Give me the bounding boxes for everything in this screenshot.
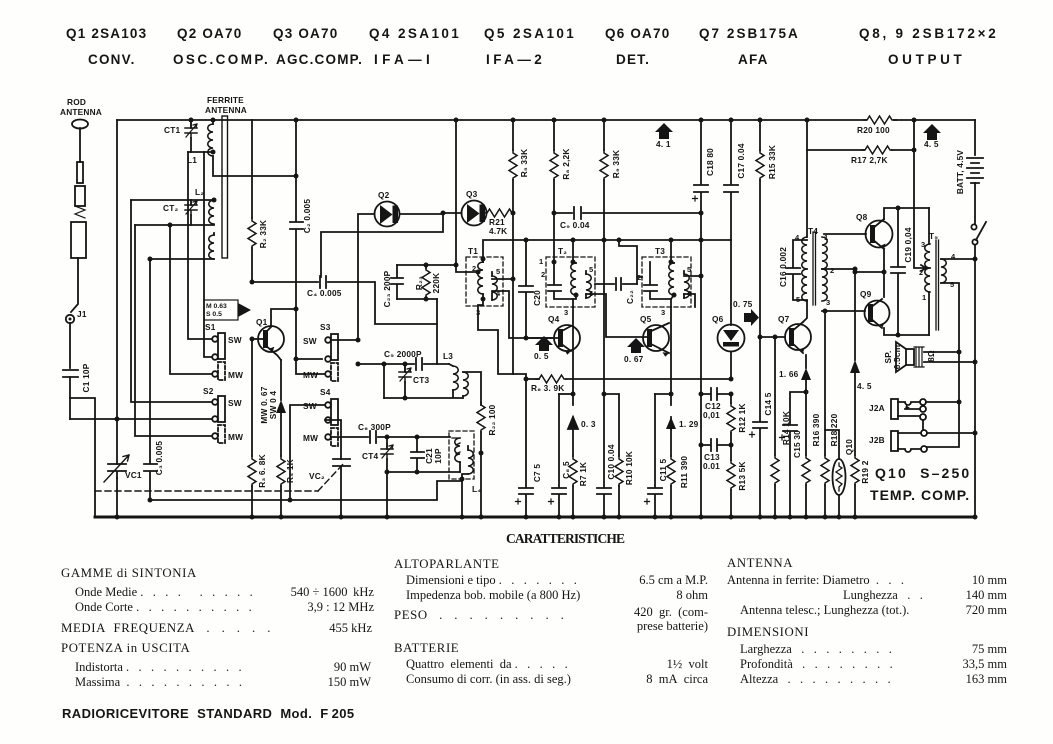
coil L3 [384,351,481,405]
svg-text:Lunghezza . .: Lunghezza . . [843,588,923,602]
capacitor C5 2000P [356,349,450,370]
svg-text:150 mW: 150 mW [328,675,372,689]
svg-text:0. 67: 0. 67 [624,354,644,364]
switch S1 [205,322,243,380]
svg-text:33,5 mm: 33,5 mm [963,657,1008,671]
svg-text:SW: SW [228,335,242,345]
svg-text:Q1: Q1 [256,317,268,327]
svg-text:Q7: Q7 [778,314,790,324]
resistor R12 1K [727,394,747,433]
svg-text:1: 1 [539,257,543,266]
battery BATT 4.5V [955,120,983,224]
capacitor C13 0.01 [699,394,734,520]
spec text right column [727,556,1007,686]
transistor Q8 [824,212,893,249]
svg-text:3: 3 [661,308,665,317]
svg-text:2: 2 [541,270,545,279]
svg-text:C11 5: C11 5 [658,458,668,481]
capacitor C17 0.04 [724,118,746,241]
svg-text:Massima . . . . . .: Massima . . . . . . . . . . [75,675,242,689]
svg-text:PESO . . . . . .: PESO . . . . . . . . . [394,608,564,622]
svg-text:2: 2 [637,273,641,282]
connector J1 [66,309,87,368]
svg-text:5: 5 [950,280,954,289]
wire: Q5 collector/emitter vertical [669,307,674,397]
svg-text:140 mm: 140 mm [966,588,1008,602]
wire: Q9 collector rail [884,328,929,338]
svg-text:Q7 2SB175A: Q7 2SB175A [699,26,799,41]
svg-text:Altezza . . . . .: Altezza . . . . . . . . . [740,672,891,686]
svg-text:C₂₂: C₂₂ [625,290,635,304]
capacitor C16 0.002 [778,240,807,300]
svg-text:C₅ 2000P: C₅ 2000P [384,349,422,359]
IF transformer T3 [637,240,692,317]
capacitor C4 0.005 [252,276,437,364]
svg-text:VC₂: VC₂ [309,471,325,481]
svg-text:MW: MW [303,433,318,443]
IF transformer T2 [539,240,595,317]
svg-text:CARATTERISTICHE: CARATTERISTICHE [506,531,626,546]
thermistor Q10 [825,430,854,520]
svg-text:Onde Corte . . . . .: Onde Corte . . . . . . . . . . [75,600,252,614]
svg-text:163 mm: 163 mm [966,672,1008,686]
svg-text:C₂ 0.005: C₂ 0.005 [302,199,312,234]
svg-text:S3: S3 [320,322,331,332]
svg-text:R13 5K: R13 5K [737,461,747,490]
capacitor C9 0.04 [554,207,704,230]
output transformer T5 [919,208,978,402]
svg-text:6.5 cm a M.P.: 6.5 cm a M.P. [639,573,708,587]
ferrite antenna bar [205,95,247,258]
svg-text:S 0.5: S 0.5 [206,311,222,318]
svg-text:MW: MW [228,432,243,442]
svg-text:4.7K: 4.7K [489,226,507,236]
svg-text:Q2 OA70: Q2 OA70 [177,26,242,41]
svg-text:ANTENNA: ANTENNA [205,105,247,115]
svg-text:C19 0,04: C19 0,04 [903,227,913,262]
svg-text:GAMME di SINTONIA: GAMME di SINTONIA [61,566,197,580]
speaker SP 6.5cm [883,342,978,372]
capacitor C1 10P [63,363,91,419]
transistor Q1 [250,280,297,361]
svg-text:C18 80: C18 80 [705,148,715,176]
svg-text:1½ volt: 1½ volt [667,657,709,671]
svg-text:Antenna telesc.; Lunghezza (to: Antenna telesc.; Lunghezza (tot.). [740,603,909,617]
svg-text:T3: T3 [655,246,665,256]
svg-text:prese batterie): prese batterie) [637,619,708,633]
svg-text:CONV.: CONV. [88,52,136,67]
svg-text:4. 1: 4. 1 [656,139,671,149]
svg-text:R₃ 6. 8K: R₃ 6. 8K [257,454,267,488]
svg-text:C₃ 0.005: C₃ 0.005 [154,441,164,476]
svg-text:5: 5 [496,267,500,276]
svg-text:SW 0 4: SW 0 4 [268,391,278,420]
IF transformer T1 [454,118,504,318]
resistor R20 100 [857,116,917,135]
svg-text:CT4: CT4 [362,451,378,461]
svg-text:Q4 2SA101: Q4 2SA101 [369,26,460,41]
svg-text:L₄: L₄ [472,484,481,494]
svg-text:Q1 2SA103: Q1 2SA103 [66,26,147,41]
svg-text:R19 2: R19 2 [860,460,870,483]
driver transformer T4 [795,150,834,307]
wire: band feeders to switches [131,152,212,436]
switch S4 [303,387,338,446]
label M/S box [204,300,251,320]
svg-text:TEMP. COMP.: TEMP. COMP. [870,487,970,503]
coil L2b lower winding [148,233,215,262]
svg-text:IFA—2: IFA—2 [486,52,543,67]
svg-text:420 gr. (com-: 420 gr. (com- [634,605,708,619]
svg-text:M 0.63: M 0.63 [206,303,227,310]
svg-text:1. 66: 1. 66 [779,369,799,379]
trimmer CT4 [362,437,393,472]
svg-text:S4: S4 [320,387,331,397]
diode Q2 [356,190,444,343]
svg-text:ANTENNA: ANTENNA [727,556,793,570]
svg-text:POTENZA in USCITA: POTENZA in USCITA [61,641,190,655]
capacitor C3 0.005 [144,259,164,500]
capacitor C6 300P [331,422,450,443]
wire: R5 branch down to C7 [513,240,526,379]
wire: node to S2 pole [70,398,212,517]
svg-text:2: 2 [830,266,834,275]
svg-text:0. 3: 0. 3 [581,419,596,429]
trimmer CT3 [384,364,429,398]
wire: T2 to Q5 base [586,294,648,337]
wire: S4 SW leg [290,405,325,500]
svg-text:R15 33K: R15 33K [767,145,777,179]
svg-text:R12 1K: R12 1K [737,403,747,432]
resistor R17 2.7K [805,118,917,166]
svg-text:R₂₂ 100: R₂₂ 100 [487,404,497,435]
capacitor C12 0.01 [699,240,734,420]
svg-text:DET.: DET. [616,52,650,67]
resistor R11 390 with 1.29 arrow [666,394,699,520]
svg-text:C₉ 0.04: C₉ 0.04 [560,220,590,230]
svg-text:Quattro elementi da . .: Quattro elementi da . . . . . [406,657,568,671]
dashed tuning gang link [95,462,345,491]
wire: R23 lower rail to L3 [436,299,438,324]
svg-text:R7 1K: R7 1K [578,462,588,487]
svg-text:Q5 2SA101: Q5 2SA101 [484,26,575,41]
voltage arrow 4.1 [655,123,673,149]
svg-text:3: 3 [921,240,925,249]
svg-text:0,01: 0,01 [703,410,720,420]
svg-text:RADIORICEVITORE STANDARD Mod: RADIORICEVITORE STANDARD Mod. F 205 [62,706,355,721]
svg-text:R₈ 2,2K: R₈ 2,2K [561,148,571,179]
svg-text:Q2: Q2 [378,190,390,200]
wire: T3 pin4 stub [684,294,695,307]
coil L1 [187,118,299,179]
capacitor C14 5 [750,337,774,520]
svg-text:CT1: CT1 [164,125,180,135]
svg-text:T₂: T₂ [558,246,567,256]
svg-text:BATT, 4.5V: BATT, 4.5V [955,150,965,195]
svg-text:J2B: J2B [869,435,885,445]
svg-text:C14 5: C14 5 [763,392,773,415]
capacitor C21 10P [411,437,443,472]
svg-text:DIMENSIONI: DIMENSIONI [727,625,809,639]
trimmer CT2 [163,200,197,225]
svg-text:75 mm: 75 mm [972,642,1007,656]
svg-text:ALTOPARLANTE: ALTOPARLANTE [394,557,500,571]
wire: feed to T5 primary center [914,120,926,271]
resistor R5 33K [509,118,529,216]
svg-text:R₂ 33K: R₂ 33K [258,220,268,248]
svg-text:MW: MW [228,370,243,380]
svg-text:Q10: Q10 [844,439,854,455]
svg-text:L₂: L₂ [195,187,204,197]
svg-text:455 kHz: 455 kHz [329,621,372,635]
svg-text:CT3: CT3 [413,375,429,385]
capacitor C22 [595,278,637,304]
variable capacitor VC2 [309,420,350,520]
variable capacitor VC1 [104,419,142,520]
spec text middle column [394,557,709,686]
svg-text:IFA—I: IFA—I [374,52,431,67]
svg-text:R₆ 3. 9K: R₆ 3. 9K [531,383,565,393]
capacitor C19 0.04 [891,208,913,335]
wire: Q8 collector rail [884,206,929,220]
svg-text:4. 5: 4. 5 [924,139,939,149]
resistor R8 2.2K [550,118,571,263]
capacitor C15 30 [780,390,809,520]
wire: detector output to Q7 base [758,335,786,340]
svg-text:T4: T4 [808,226,818,236]
svg-text:Onde Medie . . . .: Onde Medie . . . . . . . . . [75,585,253,599]
svg-text:0.01: 0.01 [703,461,720,471]
svg-text:C7 5: C7 5 [532,464,542,483]
svg-text:1. 29: 1. 29 [679,419,699,429]
jack J2B [869,430,927,452]
svg-text:SW: SW [303,336,317,346]
wire: AGC line [483,238,731,263]
svg-text:SW: SW [228,398,242,408]
svg-text:T₅: T₅ [929,231,938,241]
svg-text:1: 1 [922,293,926,302]
resistor R15 33K [756,118,777,338]
spec text left column [61,566,374,721]
title row: transistor designations [66,26,997,67]
transistor Q5 [640,314,669,357]
diode Q6 detector [712,240,745,379]
svg-text:10 mm: 10 mm [972,573,1007,587]
svg-text:ANTENNA: ANTENNA [60,107,102,117]
svg-text:3: 3 [564,308,568,317]
svg-text:R16 390: R16 390 [811,413,821,446]
svg-text:0. 5: 0. 5 [534,351,549,361]
svg-text:10P: 10P [433,448,443,464]
svg-text:Q4: Q4 [548,314,560,324]
svg-text:R17 2,7K: R17 2,7K [851,155,888,165]
wire: bottom ground bus [95,516,975,519]
svg-text:AFA: AFA [738,52,769,67]
wire: output stage emitters [853,249,887,297]
resistor R21 4.7K [484,209,514,240]
svg-text:MEDIA FREQUENZA . . .: MEDIA FREQUENZA . . . . . [61,621,271,635]
svg-text:90 mW: 90 mW [334,660,371,674]
svg-text:R₉ 33K: R₉ 33K [611,150,621,178]
svg-text:S1: S1 [205,322,216,332]
resistor R4 1K with voltage arrow [259,360,295,520]
svg-text:CT₂: CT₂ [163,203,178,213]
wire: oscillator lower rail [385,470,461,520]
svg-text:C₂₃ 200P: C₂₃ 200P [382,270,392,307]
wire: Q4 collector/emitter vertical [571,307,576,397]
svg-text:Q8, 9 2SB172×2: Q8, 9 2SB172×2 [859,26,997,41]
svg-text:8 mA circa: 8 mA circa [646,672,708,686]
resistor R10 10K [604,394,634,520]
svg-text:AGC.COMP.: AGC.COMP. [276,52,363,67]
svg-text:5: 5 [589,265,593,274]
svg-text:Q6 OA70: Q6 OA70 [605,26,670,41]
svg-text:Indistorta . . . . .: Indistorta . . . . . . . . . . [75,660,242,674]
resistor R2 33K [248,120,268,282]
capacitor C18 80 [693,118,716,241]
wire: T3 pin5 to detector rail [684,274,704,279]
capacitor C2 0.005 [290,118,312,312]
diode Q3 [441,189,487,226]
svg-text:R₂₃: R₂₃ [414,276,424,290]
coil L2 [131,187,217,228]
svg-text:S2: S2 [203,386,214,396]
svg-text:MW: MW [303,370,318,380]
svg-text:Q6: Q6 [712,314,724,324]
svg-text:ROD: ROD [67,97,86,107]
svg-text:220K: 220K [431,273,441,294]
svg-text:Consumo di corr. (in ass. di s: Consumo di corr. (in ass. di seg.) [406,672,571,686]
svg-text:R10 10K: R10 10K [624,451,634,485]
svg-text:SW: SW [303,401,317,411]
svg-text:J1: J1 [77,309,87,319]
svg-text:8 ohm: 8 ohm [676,588,708,602]
svg-text:C20: C20 [532,290,542,306]
wire: lower return line [148,481,463,503]
transistor Q7 [778,314,811,353]
capacitor C11 5 [645,394,672,520]
svg-text:Q3: Q3 [466,189,478,199]
svg-text:C₆ 300P: C₆ 300P [358,422,391,432]
resistor R22 100 [477,402,497,520]
svg-text:0. 75: 0. 75 [733,299,753,309]
svg-text:C1 10P: C1 10P [81,363,91,392]
svg-text:C16 0.002: C16 0.002 [778,247,788,287]
svg-text:Q10 S–250: Q10 S–250 [875,465,970,481]
jack J2A [869,399,926,420]
wire: jack network [923,400,978,520]
wire: neutralizing branch [619,240,642,284]
switch S2 [203,386,243,443]
resistor R14 10K [771,337,791,520]
svg-text:C17 0.04: C17 0.04 [736,143,746,178]
wire: top supply bus [117,120,975,419]
voltage arrow 0.75 [733,299,759,326]
svg-text:VC1: VC1 [125,470,142,480]
resistor R23 220K [397,263,459,302]
trimmer CT1 [164,118,197,153]
wire: T1 pin 4 to Q4 base [492,291,552,338]
wire: T4 pin5 to Q7 collector [803,301,807,322]
svg-text:R₅ 33K: R₅ 33K [519,149,529,178]
svg-text:L3: L3 [443,351,453,361]
wire: T1 pin 5 to AGC rail [492,277,516,282]
svg-text:Q9: Q9 [860,289,872,299]
svg-text:Profondità . . . . .: Profondità . . . . . . . . [740,657,893,671]
svg-text:J2A: J2A [869,403,885,413]
resistor R16 390 [802,392,821,520]
svg-text:8Ω: 8Ω [926,350,936,362]
svg-text:Antenna in ferrite: Diametro: Antenna in ferrite: Diametro . . . [727,573,904,587]
resistor R9 33K [600,118,621,241]
svg-text:BATTERIE: BATTERIE [394,641,459,655]
voltage arrow 0.5 [534,336,553,361]
label Q10 S-250 TEMP.COMP. [870,465,970,503]
capacitor C20 [519,240,542,341]
resistor R3 6.8K [248,339,267,520]
svg-text:Dimensioni e tipo . . .: Dimensioni e tipo . . . . . . . [406,573,577,587]
resistor R19 2 [851,455,870,520]
voltage arrow 4.5 top [923,124,941,149]
svg-text:4. 5: 4. 5 [857,381,872,391]
capacitor C8 5 [549,394,574,520]
svg-text:OSC.COMP.: OSC.COMP. [173,52,269,67]
resistor R7 1K with 0.3 arrow [568,394,596,520]
svg-text:3,9 : 12 MHz: 3,9 : 12 MHz [307,600,374,614]
svg-text:R11 390: R11 390 [679,456,689,488]
wire: T4 pin2 tap to 4.5 rail [822,267,872,456]
wire: T1 pin 3 return [478,299,513,374]
svg-text:6.5cm: 6.5cm [892,345,902,370]
rod antenna [60,97,102,312]
coil L4 [449,431,481,520]
svg-text:C₄ 0.005: C₄ 0.005 [307,288,342,298]
svg-text:FERRITE: FERRITE [207,95,244,105]
svg-text:C15 30: C15 30 [792,430,802,458]
capacitor C23 200P [382,265,403,307]
transistor Q4 [526,314,580,355]
svg-text:720 mm: 720 mm [966,603,1008,617]
caption CARATTERISTICHE [506,531,626,546]
svg-text:Q5: Q5 [640,314,652,324]
resistor R13 5K [727,433,747,520]
svg-text:3: 3 [826,298,830,307]
resistor R18 220 [821,309,839,520]
svg-text:Q8: Q8 [856,212,868,222]
svg-text:C10 0.04: C10 0.04 [606,444,616,479]
svg-text:540 ÷ 1600 kHz: 540 ÷ 1600 kHz [291,585,375,599]
voltage arrow 0.67 [624,338,645,364]
svg-text:Impedenza bob. mobile (a 800 H: Impedenza bob. mobile (a 800 Hz) [406,588,580,602]
wire: Q1 collector feed to S3 pole [294,309,326,374]
capacitor C7 5 [516,379,543,520]
svg-text:R20 100: R20 100 [857,125,890,135]
svg-text:2: 2 [919,268,923,277]
svg-text:T1: T1 [468,246,478,256]
svg-text:OUTPUT: OUTPUT [888,52,963,67]
resistor R6 3.9K [524,375,734,393]
wire: Q2/Q3 node down to C4 [321,213,443,277]
svg-text:Larghezza . . . . .: Larghezza . . . . . . . . [740,642,892,656]
svg-text:5: 5 [687,265,691,274]
switch S3 [303,322,358,381]
capacitor C10 0.04 [597,240,616,520]
voltage arrow 1.66 [779,355,811,392]
svg-text:Q3 OA70: Q3 OA70 [273,26,338,41]
power switch [971,222,986,517]
transistor Q9 [822,289,890,328]
